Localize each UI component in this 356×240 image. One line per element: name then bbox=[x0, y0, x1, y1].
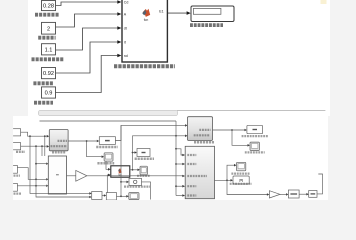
svg-text:1.1: 1.1 bbox=[45, 47, 53, 53]
svg-text:0.28: 0.28 bbox=[43, 4, 54, 10]
svg-text:0.92: 0.92 bbox=[43, 71, 54, 77]
svg-text:Cd: Cd bbox=[124, 0, 129, 4]
svg-text:nd: nd bbox=[124, 54, 128, 58]
svg-text:rt: rt bbox=[124, 40, 126, 44]
svg-text:0.9: 0.9 bbox=[45, 91, 53, 97]
svg-text:PI: PI bbox=[239, 178, 243, 183]
svg-text:E1: E1 bbox=[159, 10, 163, 14]
svg-text:fcn: fcn bbox=[144, 18, 149, 22]
svg-text:2: 2 bbox=[47, 26, 50, 32]
svg-text:dt: dt bbox=[124, 26, 127, 30]
